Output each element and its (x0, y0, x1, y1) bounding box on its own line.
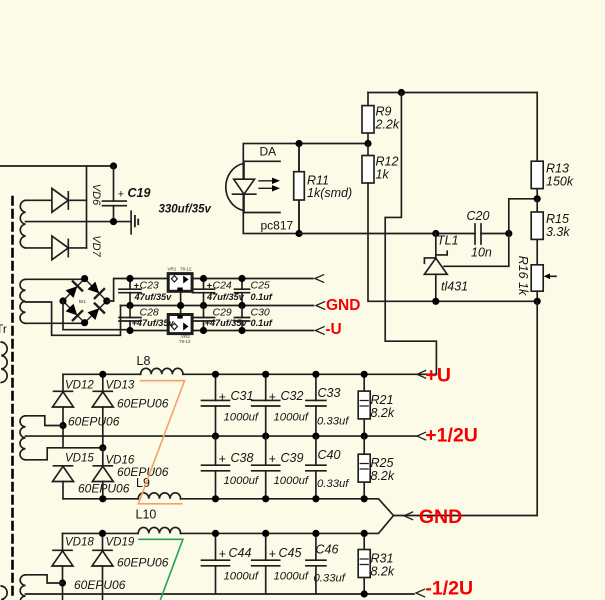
inductor L8 (141, 368, 183, 374)
capacitor C23 (119, 279, 141, 306)
svg-text:0.33uf: 0.33uf (314, 573, 347, 585)
diode Br1 bottom-right (87, 304, 104, 321)
diode VD15 (53, 466, 74, 499)
svg-text:1k(smd): 1k(smd) (307, 186, 352, 200)
diode VD18 (52, 533, 73, 600)
svg-text:R15: R15 (546, 212, 569, 226)
svg-text:R13: R13 (546, 162, 569, 176)
svg-text:8.2k: 8.2k (371, 406, 395, 420)
node C24 bottom (200, 302, 207, 309)
capacitor C31 (202, 374, 230, 436)
node junction top bus (398, 89, 405, 96)
wire DA to R9/R12 junction y=143.5 (299, 143, 368, 145)
svg-text:C24: C24 (213, 280, 232, 292)
svg-text:0.33uf: 0.33uf (317, 416, 350, 428)
node VD16 cathode tap (99, 444, 106, 451)
node R21 top (361, 371, 368, 378)
wire +U sense line (385, 93, 436, 375)
svg-text:R25: R25 (371, 456, 394, 470)
node C23 top (126, 275, 133, 282)
capacitor C32 (252, 374, 280, 436)
svg-text:1k: 1k (376, 168, 390, 182)
wire GND bus down to GND arrow (394, 301, 538, 515)
resistor R25 (358, 436, 370, 499)
node C45 top (262, 530, 269, 537)
node C38 bottom (212, 495, 219, 502)
svg-text:60EPU06: 60EPU06 (74, 578, 126, 592)
node C40 bottom (312, 495, 319, 502)
transformer winding W4 (20, 575, 25, 600)
capacitor C28 (119, 306, 141, 331)
svg-text:R21: R21 (371, 393, 394, 407)
node C39 bottom (262, 495, 269, 502)
node C29 bottom (200, 327, 207, 334)
capacitor C39 (252, 436, 280, 499)
node C33 bottom (312, 433, 319, 440)
svg-text:0.1uf: 0.1uf (251, 318, 273, 328)
svg-text:VD13: VD13 (106, 380, 135, 392)
wire W4 centre tap -1/2U rail (26, 593, 415, 595)
svg-text:+: + (219, 547, 226, 561)
capacitor C24 (193, 279, 215, 306)
connector arrow -1/2U (416, 589, 425, 597)
LED of optocoupler (226, 161, 280, 212)
wire R12 bottom to GND bus y=301.3 (368, 183, 537, 301)
transformer winding W1 (VD6/VD7) (20, 200, 25, 248)
svg-text:C31: C31 (231, 389, 254, 403)
inductor L10 (138, 527, 180, 533)
annotation orange stroke (138, 381, 184, 504)
svg-text:10n: 10n (471, 246, 492, 260)
connector arrow out VR1 (315, 275, 324, 283)
capacitor C30 (235, 306, 250, 331)
wire DA bottom to TL431/C20 y=233.5 (299, 233, 509, 235)
node junction R9/R12 (364, 140, 371, 147)
diode Br1 bottom-left (65, 303, 82, 320)
resistor R15 (531, 199, 543, 265)
node TL431 anode on GND bus (432, 298, 439, 305)
svg-text:C44: C44 (229, 546, 252, 560)
svg-text:+1/2U: +1/2U (425, 425, 478, 447)
wire minus rail y=330.5 (132, 329, 314, 332)
svg-text:60EPU06: 60EPU06 (117, 397, 169, 411)
svg-text:1000uf: 1000uf (224, 571, 260, 583)
node R31 bottom (361, 590, 368, 597)
svg-text:VR1: VR1 (168, 267, 177, 272)
inductor L9 (138, 493, 180, 499)
svg-text:Br1: Br1 (79, 299, 87, 304)
node bridge right (103, 297, 110, 304)
diode VD16 (92, 448, 113, 499)
svg-text:79-12: 79-12 (179, 339, 191, 344)
diode VD7 (26, 236, 87, 260)
svg-text:2.2k: 2.2k (375, 118, 400, 132)
svg-text:-1/2U: -1/2U (425, 578, 473, 600)
svg-text:0.33uf: 0.33uf (317, 478, 350, 490)
node C33 top (312, 371, 319, 378)
transformer winding W2 (bridge) (20, 279, 25, 323)
node C19 bottom (110, 218, 117, 225)
node VD12 anode tap (59, 422, 66, 429)
svg-text:pc817: pc817 (261, 219, 294, 233)
svg-text:8.2k: 8.2k (371, 469, 395, 483)
svg-text:0.1uf: 0.1uf (251, 292, 273, 302)
resistor R31 (358, 533, 370, 594)
capacitor C25 (235, 279, 250, 306)
node VD16 anode (99, 495, 106, 502)
capacitor C45 (252, 533, 280, 594)
wire top feedback bus y=92.5 (368, 92, 537, 94)
node bridge bottom (81, 319, 88, 326)
svg-text:47uf/35v: 47uf/35v (134, 292, 173, 302)
connector arrow GND (404, 512, 413, 520)
svg-text:R16 1k: R16 1k (516, 256, 530, 296)
capacitor C33 (306, 374, 326, 436)
diode VD19 (92, 533, 113, 600)
wire W2 centre tap to GND rail (26, 302, 121, 335)
wire bridge minus to minus rail (63, 301, 132, 330)
svg-text:VD19: VD19 (106, 537, 135, 549)
transformer winding W3 (20, 416, 25, 460)
svg-text:60EPU06: 60EPU06 (78, 482, 130, 496)
regulator VR1 78-12 (168, 274, 192, 306)
svg-text:+U: +U (426, 364, 451, 386)
wire VD6/VD7 cathodes to top AC feed (86, 166, 88, 248)
node C30 bottom (238, 327, 245, 334)
transistor TL1 tl431 shunt regulator (424, 234, 508, 302)
svg-text:GND: GND (326, 297, 360, 314)
node DA top right (295, 140, 302, 147)
svg-text:3.3k: 3.3k (546, 225, 570, 239)
wire bridge plus to VR rail (107, 279, 168, 302)
diode Br1 top-left (65, 281, 82, 298)
svg-text:8.2k: 8.2k (371, 565, 395, 579)
wire W3 bottom tap to VD16 cathode (26, 448, 103, 460)
node VR1 gnd stub (177, 302, 184, 309)
node DA bottom right (295, 230, 302, 237)
diode Br1 top-right (87, 281, 104, 298)
svg-text:+47uf/35v: +47uf/35v (132, 318, 175, 328)
node C20 right (505, 230, 512, 237)
node C25 top (238, 275, 245, 282)
svg-text:C32: C32 (281, 389, 304, 403)
svg-text:+: + (219, 452, 226, 466)
wire GND lower rail y=533.4 with L10 (63, 532, 139, 534)
capacitor C19 (103, 166, 127, 222)
svg-text:R12: R12 (376, 155, 399, 169)
node R21 bottom (361, 433, 368, 440)
node C31 bottom (212, 433, 219, 440)
node C32 top (262, 371, 269, 378)
svg-text:L10: L10 (136, 508, 157, 522)
node VD13 top (99, 371, 106, 378)
svg-text:C19: C19 (128, 186, 151, 200)
connector arrow -U (316, 327, 325, 335)
node VD18 anode tap (59, 579, 66, 586)
wire centre tap to C19 bottom y=221.6 (26, 221, 132, 223)
wire top left AC feed y=166 (0, 165, 114, 167)
wire R13/R15 junction to C20 node (509, 199, 537, 234)
ground (131, 211, 138, 234)
node C46 top (312, 530, 319, 537)
node VD19 top (99, 530, 106, 537)
resistor R16 trimmer (531, 265, 556, 302)
svg-text:DA: DA (260, 145, 277, 159)
svg-text:tl431: tl431 (441, 280, 468, 294)
svg-text:C30: C30 (251, 306, 270, 318)
svg-text:+: + (269, 452, 276, 466)
node C28 bottom (126, 327, 133, 334)
svg-text:1000uf: 1000uf (224, 475, 260, 487)
annotation green stroke (138, 539, 183, 600)
svg-text:78-12: 78-12 (180, 267, 192, 272)
node C23 bottom (126, 302, 133, 309)
svg-text:+: + (269, 390, 276, 404)
capacitor C40 (306, 436, 326, 499)
svg-text:C20: C20 (467, 209, 490, 223)
resistor R11 (294, 144, 305, 234)
wire GND mid rail y=305.5 (121, 305, 314, 307)
svg-text:R31: R31 (371, 552, 394, 566)
svg-text:1000uf: 1000uf (274, 571, 310, 583)
node R25 bottom (361, 495, 368, 502)
svg-text:TL1: TL1 (437, 234, 459, 248)
svg-text:Tr: Tr (0, 322, 7, 336)
svg-text:VD18: VD18 (65, 537, 94, 549)
svg-text:-U: -U (325, 321, 341, 338)
wire W3 top tap to VD12 anode (26, 416, 64, 426)
svg-text:C38: C38 (231, 451, 254, 465)
node bridge top (81, 275, 88, 282)
node R13/R15 junction (534, 195, 541, 202)
node C31 top (212, 371, 219, 378)
svg-text:1000uf: 1000uf (274, 412, 310, 424)
svg-text:VD6: VD6 (90, 184, 102, 206)
svg-text:L8: L8 (137, 354, 151, 368)
svg-text:C28: C28 (140, 306, 159, 318)
regulator VR2 79-12 (168, 306, 192, 334)
wire +U rail y=374.3 with L8 (63, 373, 141, 375)
connector arrow GND mid (316, 302, 325, 310)
resistor R12 (362, 144, 374, 184)
svg-text:C29: C29 (213, 306, 232, 318)
node C44 top (212, 530, 219, 537)
svg-text:C33: C33 (318, 386, 341, 400)
node bridge left (59, 297, 66, 304)
svg-text:C46: C46 (316, 543, 339, 557)
transformer Tr core dashed line (11, 197, 14, 600)
transformer primary winding upper (1, 342, 7, 383)
svg-text:1000uf: 1000uf (224, 412, 260, 424)
svg-text:+: + (118, 189, 125, 201)
wire W4 top tap to VD18 anode (26, 575, 63, 583)
svg-text:150k: 150k (546, 175, 574, 189)
svg-text:C23: C23 (140, 280, 159, 292)
svg-text:1000uf: 1000uf (274, 475, 310, 487)
svg-text:VD15: VD15 (65, 453, 94, 465)
capacitor C29 (193, 306, 215, 331)
svg-text:+: + (269, 547, 276, 561)
svg-text:VD12: VD12 (65, 380, 94, 392)
node R16 bottom on GND bus (534, 298, 541, 305)
capacitor C20 (475, 224, 481, 244)
connector arrow +1/2U (417, 432, 426, 440)
optocoupler DA pc817 box (243, 144, 299, 234)
svg-text:+47uf/35v: +47uf/35v (205, 318, 248, 328)
resistor R13 (531, 93, 543, 199)
resistor R21 (358, 374, 370, 436)
bridge rectifier Br1 (63, 279, 107, 323)
node C32 bottom (262, 433, 269, 440)
diode VD6 (26, 188, 87, 212)
wire W2 top to bridge (26, 278, 85, 281)
connector arrow +U (417, 371, 426, 379)
wire GND upper rail y=498.8 with L9 (63, 498, 138, 500)
svg-text:GND: GND (419, 506, 462, 528)
capacitor C38 (202, 436, 230, 499)
wire W2 bottom to bridge (26, 322, 85, 324)
transformer primary winding lower (1, 586, 7, 600)
svg-text:60EPU06: 60EPU06 (117, 556, 169, 570)
svg-text:VD7: VD7 (90, 235, 102, 257)
node C25 bottom (238, 302, 245, 309)
capacitor C46 (306, 533, 326, 594)
svg-text:C45: C45 (279, 546, 302, 560)
wire W3 centre tap +1/2U rail (26, 435, 417, 437)
svg-text:C25: C25 (251, 280, 270, 292)
svg-text:+: + (219, 390, 226, 404)
LED emission arrows (259, 178, 280, 192)
diode VD13 (92, 374, 113, 448)
svg-text:C39: C39 (281, 451, 304, 465)
node C19 top (110, 162, 117, 169)
svg-text:330uf/35v: 330uf/35v (159, 204, 212, 216)
svg-text:R9: R9 (376, 105, 392, 119)
node C24 top (200, 275, 207, 282)
wire VR1 out rail y=278.5 (191, 278, 313, 280)
svg-text:60EPU06: 60EPU06 (68, 415, 120, 429)
svg-text:C40: C40 (318, 448, 341, 462)
node R31 top (361, 530, 368, 537)
diode VD12 (53, 374, 74, 448)
capacitor C44 (202, 533, 230, 594)
node TL431 cathode (432, 230, 439, 237)
resistor R9 (362, 93, 374, 144)
